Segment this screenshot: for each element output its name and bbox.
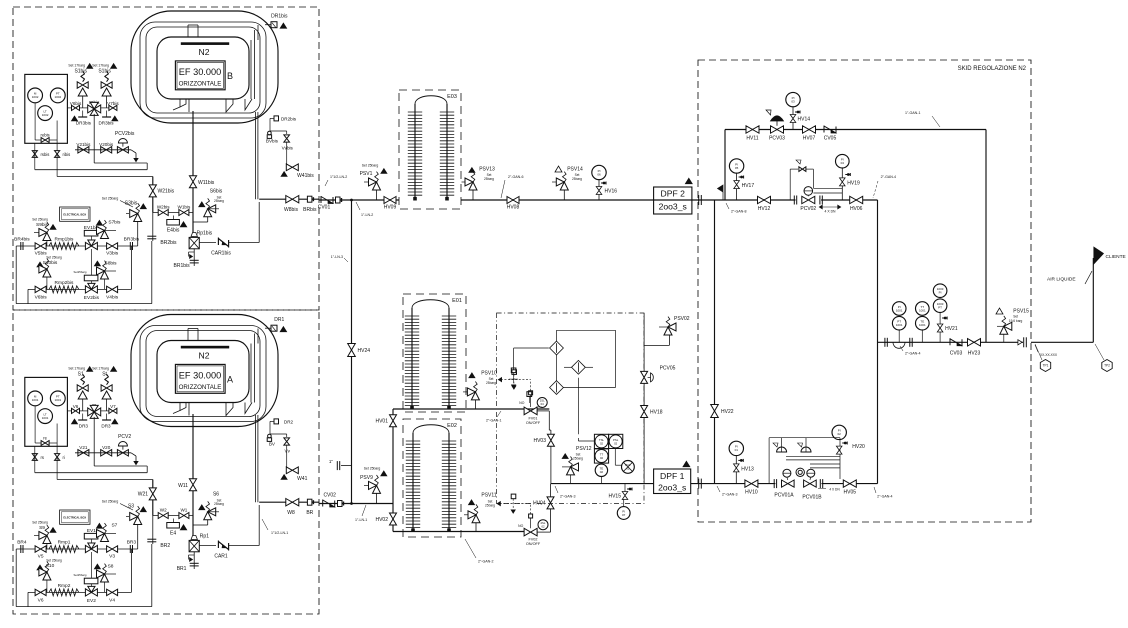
valve HV14	[795, 111, 800, 113]
instrument PI 01	[729, 441, 743, 455]
analysis enclosure (chain line)	[497, 313, 644, 504]
PCV2bis pipe	[75, 149, 131, 151]
svg-text:06: 06	[597, 172, 601, 176]
svg-text:ORIZZONTALE: ORIZZONTALE	[179, 81, 222, 88]
valve V3	[107, 546, 118, 552]
flange skid outlet	[1023, 337, 1025, 347]
PCV01 pilot piping	[768, 438, 770, 484]
svg-text:1"1/2-LN-1: 1"1/2-LN-1	[271, 531, 288, 535]
svg-text:BR1: BR1	[177, 566, 187, 572]
svg-text:AIR LIQUIDE: AIR LIQUIDE	[1047, 277, 1076, 283]
check valve CV05	[823, 126, 825, 133]
valve HV20	[842, 442, 847, 444]
svg-text:V5: V5	[38, 554, 44, 560]
svg-text:Rmp1: Rmp1	[58, 540, 71, 546]
svg-text:Set 17barg: Set 17barg	[92, 64, 109, 68]
valve W8bis	[286, 196, 299, 203]
svg-text:PSV15: PSV15	[1013, 308, 1029, 314]
svg-text:1": 1"	[329, 459, 334, 464]
manifold B frame	[15, 246, 17, 304]
coil Rmp1	[49, 546, 79, 553]
drain DR2bis	[270, 117, 274, 119]
svg-text:2oo3_s: 2oo3_s	[658, 483, 686, 493]
svg-text:1001: 1001	[896, 323, 903, 327]
svg-text:V7: V7	[110, 404, 116, 409]
svg-text:DR3bis: DR3bis	[76, 121, 92, 126]
instrument TT 1001 / TE 1001	[916, 302, 930, 316]
valve W21	[152, 480, 154, 516]
pipe E01 branch	[392, 409, 394, 504]
valve HV16	[601, 182, 606, 184]
filter F1	[550, 341, 564, 355]
svg-text:Set 25barg: Set 25barg	[102, 499, 119, 503]
coil Rmp1bis	[49, 243, 79, 250]
svg-text:2"-GAN-4: 2"-GAN-4	[881, 175, 896, 179]
instrument TE 02	[595, 464, 607, 476]
svg-text:BR2: BR2	[160, 543, 170, 549]
svg-text:V21: V21	[79, 445, 88, 450]
tank TA jacket outline 2	[140, 326, 266, 422]
instrument PI 02	[832, 425, 846, 439]
line Rp1bis to riser	[229, 242, 260, 244]
svg-text:1002: 1002	[42, 113, 49, 117]
solenoid valve EV2bis	[84, 275, 98, 281]
valve W11bis	[192, 111, 194, 237]
sampling loop piping	[514, 347, 549, 349]
svg-text:02: 02	[838, 432, 842, 436]
svg-text:E4bis: E4bis	[167, 228, 180, 234]
svg-text:rsbis: rsbis	[41, 152, 50, 157]
pipe HV22 bypass	[714, 200, 716, 484]
valve Vvbis	[286, 131, 288, 134]
valve W2bis	[153, 212, 193, 214]
svg-text:HV07: HV07	[803, 136, 816, 142]
pipe main liquid line 1"-LN-1	[319, 503, 393, 505]
svg-text:W21: W21	[138, 492, 149, 498]
valve HV21	[942, 317, 947, 319]
svg-text:W8: W8	[287, 510, 295, 516]
svg-text:PT: PT	[938, 306, 942, 310]
svg-text:S7bis: S7bis	[108, 219, 121, 225]
svg-text:PCV05: PCV05	[660, 366, 676, 372]
drain DR3bis left	[82, 111, 84, 118]
flange BR1	[193, 552, 195, 569]
svg-text:Set 17barg: Set 17barg	[68, 64, 85, 68]
svg-text:CV03: CV03	[950, 351, 963, 357]
tiepoint TP1	[1040, 360, 1050, 372]
collector line A	[35, 472, 147, 474]
tank TA outer jacket capsule	[131, 315, 278, 427]
svg-text:05: 05	[735, 166, 739, 170]
svg-text:NO: NO	[519, 401, 524, 405]
svg-text:1"1/2-LN-2: 1"1/2-LN-2	[330, 175, 347, 179]
drain DR1	[265, 327, 271, 329]
svg-text:BVbis: BVbis	[266, 139, 279, 144]
svg-text:PCV02: PCV02	[800, 206, 816, 212]
tank TB inner vessel	[157, 37, 249, 99]
svg-text:HV14: HV14	[798, 117, 811, 123]
pipe collector vertical	[877, 200, 879, 484]
instrument panel box A	[25, 377, 68, 446]
valve HV23	[968, 339, 981, 346]
svg-text:HV21: HV21	[945, 326, 958, 332]
svg-text:Set 25barg: Set 25barg	[364, 467, 381, 471]
tank TA inner vessel	[157, 341, 249, 403]
valve V5bis	[35, 243, 46, 249]
svg-text:N2: N2	[199, 351, 210, 361]
sample probe squares	[511, 368, 516, 373]
label 1"-LN-2	[356, 202, 360, 210]
svg-text:ORIZZONTALE: ORIZZONTALE	[179, 384, 222, 391]
instrument panel box B	[25, 74, 68, 143]
valve HV12	[758, 196, 771, 203]
valve HV03	[547, 434, 554, 446]
svg-text:1002: 1002	[54, 95, 61, 99]
instrument PI 06	[592, 165, 606, 179]
svg-text:2"-GAN-1: 2"-GAN-1	[486, 419, 501, 423]
EV interconnect pipe B	[90, 249, 92, 275]
svg-text:V6: V6	[73, 404, 79, 409]
svg-text:ribis: ribis	[63, 152, 71, 157]
svg-text:HV08: HV08	[507, 205, 520, 211]
svg-text:N2: N2	[199, 47, 210, 57]
valve HV11	[746, 126, 759, 133]
manifold A row2 pipe	[28, 591, 131, 593]
pipe PCV03 branch downcomer	[985, 130, 987, 343]
svg-text:S9bis: S9bis	[36, 222, 49, 228]
svg-text:PCV01B: PCV01B	[802, 495, 822, 501]
svg-text:PSV02: PSV02	[674, 316, 690, 322]
svg-text:XX-XX-XXX: XX-XX-XXX	[1040, 353, 1058, 357]
svg-text:Vv: Vv	[285, 449, 291, 454]
coil Rmp2bis	[49, 286, 79, 293]
tank TA withdrawal pipe	[254, 415, 256, 502]
unit A dashed enclosure	[13, 310, 319, 614]
relief valve S8	[94, 564, 100, 569]
svg-text:1001: 1001	[896, 308, 903, 312]
svg-text:CV01: CV01	[318, 205, 331, 211]
svg-text:2"-GAN-3: 2"-GAN-3	[722, 493, 737, 497]
flange BR4	[20, 545, 22, 553]
svg-text:02: 02	[600, 441, 604, 445]
svg-text:03: 03	[791, 99, 795, 103]
svg-text:02: 02	[614, 441, 618, 445]
svg-text:DPF 1: DPF 1	[660, 471, 685, 481]
valve HV19	[845, 174, 850, 176]
svg-text:PCV01A: PCV01A	[774, 493, 794, 499]
svg-text:DR3: DR3	[79, 424, 89, 429]
svg-text:S10bis: S10bis	[43, 260, 58, 266]
drain DR2	[270, 420, 274, 422]
electrical box A	[60, 510, 90, 524]
svg-text:2oo3_s: 2oo3_s	[659, 202, 687, 212]
valve HV13	[738, 459, 743, 461]
valve V4	[107, 589, 118, 595]
valve HV17	[739, 176, 744, 178]
instrument LT 1001	[38, 409, 53, 424]
valve W2	[153, 515, 193, 517]
check valve CV03	[949, 338, 951, 345]
svg-text:1001: 1001	[919, 308, 926, 312]
svg-text:2"-GAN-4: 2"-GAN-4	[905, 352, 920, 356]
control valve PCV03	[771, 126, 784, 133]
tiepoint TP2	[1102, 360, 1112, 372]
tank TB jacket outline 3	[146, 27, 260, 113]
svg-text:HV06: HV06	[850, 206, 863, 212]
svg-text:S7: S7	[111, 522, 117, 528]
svg-text:W1: W1	[180, 508, 187, 513]
svg-text:BR1bis: BR1bis	[174, 263, 191, 269]
coil Rmp2	[49, 589, 79, 596]
valve W8	[286, 499, 299, 506]
vaporizer E01	[403, 294, 466, 412]
pipe 1"-LN-3 vertical	[351, 200, 353, 504]
instrument 1003 PI / 1003 PT	[933, 284, 947, 298]
flange BR3bis	[129, 242, 131, 250]
svg-text:PSV1: PSV1	[360, 171, 373, 177]
valve W21bis	[152, 177, 154, 213]
svg-text:HV23: HV23	[968, 351, 981, 357]
svg-text:CAR1: CAR1	[214, 554, 228, 560]
svg-text:1"-LN-3: 1"-LN-3	[331, 255, 343, 259]
svg-text:HV05: HV05	[844, 490, 857, 496]
valve HV01	[390, 415, 397, 427]
flange BR4bis	[20, 242, 22, 250]
svg-text:Set 25barg: Set 25barg	[362, 164, 379, 168]
pipe riser to PCV03 branch	[724, 130, 726, 201]
svg-text:BV: BV	[269, 442, 276, 447]
tank TB support legs	[173, 99, 180, 110]
svg-text:HV01: HV01	[375, 419, 388, 425]
svg-text:CLIENTE: CLIENTE	[1106, 254, 1126, 260]
svg-text:HV15: HV15	[608, 494, 621, 500]
FV01 air piping	[530, 380, 532, 391]
valve BV	[268, 434, 272, 438]
svg-text:CV05: CV05	[824, 136, 837, 142]
svg-text:DR3: DR3	[101, 424, 111, 429]
svg-text:rebis: rebis	[41, 133, 50, 138]
svg-text:HV18: HV18	[650, 410, 663, 416]
svg-text:Vvbis: Vvbis	[282, 146, 294, 151]
svg-text:W8bis: W8bis	[284, 207, 298, 213]
relief valve S8bis	[94, 261, 100, 266]
relief valve PSV12	[562, 454, 568, 459]
svg-text:HV13: HV13	[741, 466, 754, 472]
pipe main gas line 1"-LN-2	[319, 199, 399, 201]
svg-text:1"-LN-2: 1"-LN-2	[361, 213, 373, 217]
flange skid inlet bottom	[691, 483, 715, 485]
svg-text:25barg: 25barg	[573, 456, 583, 460]
tank TA jacket outline 3	[146, 331, 260, 417]
manifold A frame	[15, 549, 17, 607]
tank TA internal pipework	[187, 329, 189, 341]
svg-text:BRbis: BRbis	[303, 207, 317, 213]
svg-text:Set 17barg: Set 17barg	[68, 367, 85, 371]
pipe 2"-GAN-3 analysis header	[551, 483, 654, 485]
svg-text:PI: PI	[939, 291, 942, 295]
instrument PT 1001	[50, 391, 65, 406]
svg-text:HV22: HV22	[721, 409, 734, 415]
svg-text:1"-GAN-1: 1"-GAN-1	[905, 111, 920, 115]
svg-text:25barg: 25barg	[214, 199, 224, 203]
svg-text:Rp1bis: Rp1bis	[197, 231, 213, 237]
flange BR	[307, 499, 312, 505]
valve BVbis	[268, 131, 272, 135]
svg-text:DPF 2: DPF 2	[661, 189, 686, 199]
valve HV06	[850, 196, 863, 203]
valve HV22	[711, 405, 719, 418]
svg-text:CAR1bis: CAR1bis	[211, 251, 231, 257]
valve HV05	[843, 480, 856, 487]
svg-text:EF 30.000: EF 30.000	[179, 371, 221, 381]
PCV2 pipe	[75, 452, 131, 454]
svg-text:W11bis: W11bis	[198, 180, 215, 186]
svg-text:W41: W41	[297, 476, 308, 482]
tank TB withdrawal pipe	[254, 112, 256, 199]
FV02 air piping	[530, 504, 532, 514]
valve HV10	[745, 480, 758, 487]
svg-text:Set 25barg: Set 25barg	[46, 256, 62, 260]
svg-text:Set 25barg: Set 25barg	[32, 521, 48, 525]
svg-text:ELECTRICAL BOX: ELECTRICAL BOX	[63, 516, 86, 520]
svg-text:BR: BR	[306, 510, 313, 516]
tank TB outer jacket capsule	[131, 11, 278, 123]
economizer E4bis	[173, 216, 175, 220]
svg-text:1001: 1001	[919, 323, 926, 327]
filter F2	[572, 360, 586, 374]
valve rsbis	[32, 151, 37, 158]
pipe skid bottom branch	[715, 483, 776, 485]
svg-text:PSV13: PSV13	[479, 167, 495, 173]
valve W41	[286, 445, 288, 470]
svg-text:BR2bis: BR2bis	[160, 240, 177, 246]
tank TB liquid level mark	[181, 43, 229, 45]
svg-text:ri: ri	[63, 455, 65, 460]
flange PCV01 outlet	[819, 479, 821, 488]
svg-text:EV2: EV2	[87, 598, 96, 604]
svg-text:HV12: HV12	[758, 206, 771, 212]
IR drain run	[93, 417, 95, 466]
control valve PCV2	[118, 442, 127, 447]
instrument block TT 02	[594, 449, 608, 463]
svg-text:W2bis: W2bis	[157, 205, 170, 210]
instrument block TSL/PSL	[594, 434, 608, 448]
svg-text:02: 02	[600, 456, 604, 460]
instrument M 1002	[28, 88, 43, 103]
svg-text:DR1: DR1	[274, 317, 284, 323]
svg-text:TP1: TP1	[1043, 364, 1049, 368]
unit B dashed enclosure	[13, 7, 319, 310]
svg-text:Rmp1bis: Rmp1bis	[55, 237, 75, 243]
svg-text:Rp1: Rp1	[200, 534, 209, 540]
svg-text:25barg: 25barg	[214, 502, 224, 506]
svg-text:Set25barg: Set25barg	[74, 270, 87, 274]
battery limit flag CLIENTE	[1094, 247, 1104, 264]
svg-text:Set 17barg: Set 17barg	[92, 367, 109, 371]
svg-text:PSV14: PSV14	[567, 167, 583, 173]
svg-text:2"-GAN-2: 2"-GAN-2	[478, 560, 493, 564]
relief valve S7	[96, 523, 102, 528]
control valve PCV01B	[804, 480, 817, 487]
svg-text:Set 25barg: Set 25barg	[32, 218, 48, 222]
valve ri	[55, 454, 60, 461]
valve HV04	[547, 497, 554, 509]
svg-text:1001: 1001	[54, 398, 61, 402]
svg-text:Rmp2bis: Rmp2bis	[55, 280, 75, 286]
electrical box B	[60, 207, 90, 221]
relief valve PSV10	[469, 373, 475, 378]
flange BR1bis	[193, 249, 195, 266]
svg-text:HV02: HV02	[375, 517, 388, 523]
valve HV09	[384, 197, 396, 204]
collector line B	[35, 169, 147, 171]
valve W11	[192, 414, 194, 540]
node junction CV01	[351, 199, 353, 201]
pipe skid inlet line	[698, 199, 796, 201]
svg-text:2"-GAN-8: 2"-GAN-8	[731, 210, 746, 214]
instrument PI 1001 / PT 1001	[892, 302, 906, 316]
svg-text:CV02: CV02	[323, 493, 336, 499]
svg-text:1002: 1002	[32, 95, 39, 99]
economizer E4	[173, 519, 175, 523]
instrument PT 1002	[50, 88, 65, 103]
filter F3	[550, 381, 564, 395]
svg-text:S3bis: S3bis	[125, 201, 138, 207]
svg-text:07: 07	[622, 513, 626, 517]
svg-text:V6: V6	[38, 597, 44, 603]
svg-text:S1bis: S1bis	[98, 69, 111, 75]
svg-text:NO: NO	[518, 524, 523, 528]
svg-text:PSV12: PSV12	[576, 446, 592, 452]
svg-text:HV16: HV16	[605, 189, 618, 195]
svg-text:Set 25barg: Set 25barg	[102, 196, 119, 200]
svg-text:25barg: 25barg	[485, 504, 495, 508]
flange skid inlet top	[698, 195, 700, 205]
svg-text:2"-GAN-3: 2"-GAN-3	[560, 495, 575, 499]
instrument M 1001	[28, 391, 43, 406]
svg-text:EF 30.000: EF 30.000	[179, 67, 221, 77]
relief valve PSV11	[469, 500, 475, 505]
svg-text:PCV2bis: PCV2bis	[115, 131, 135, 137]
valve HV24	[348, 344, 356, 357]
svg-text:2"-GAN-6: 2"-GAN-6	[508, 175, 523, 179]
valve V3bis	[107, 243, 118, 249]
svg-text:HV11: HV11	[746, 136, 758, 142]
svg-text:04: 04	[541, 402, 545, 406]
svg-text:W2: W2	[160, 508, 167, 513]
valve HV18	[641, 406, 648, 418]
pipe PSV02 to header	[644, 344, 669, 346]
flange BRbis	[307, 196, 312, 202]
instrument PI 04	[836, 154, 850, 168]
svg-text:DR2bis: DR2bis	[281, 116, 297, 121]
valve V6 row2	[35, 589, 46, 595]
svg-text:2"-GAN-4: 2"-GAN-4	[877, 494, 892, 498]
relief valve PSV15	[996, 308, 1003, 314]
svg-text:ELECTRICAL BOX: ELECTRICAL BOX	[63, 213, 86, 217]
drain DR1bis	[265, 24, 271, 26]
svg-text:S3: S3	[128, 504, 134, 510]
svg-text:EV2bis: EV2bis	[84, 295, 100, 301]
valve V5	[35, 546, 46, 552]
svg-text:01: 01	[735, 448, 739, 452]
control valve PCV01A	[782, 480, 795, 487]
svg-text:25barg: 25barg	[486, 381, 496, 385]
svg-text:25barg: 25barg	[484, 177, 494, 181]
svg-text:PCV2: PCV2	[118, 434, 131, 440]
svg-text:1"-LN-1: 1"-LN-1	[355, 518, 367, 522]
vaporizer E03	[399, 90, 461, 209]
